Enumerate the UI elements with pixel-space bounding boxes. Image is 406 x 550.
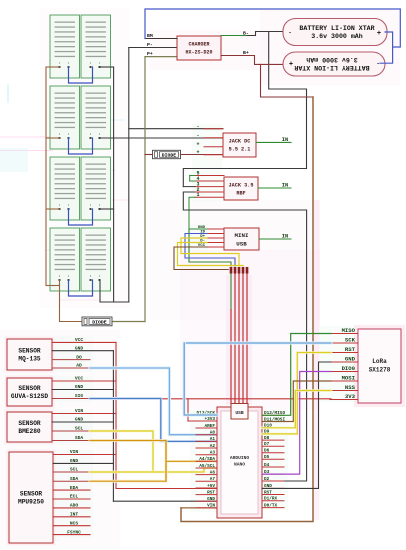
svg-text:BATTERY LI-ION XTAR: BATTERY LI-ION XTAR: [299, 25, 374, 32]
svg-text:RST: RST: [345, 346, 356, 353]
svg-text:MISO: MISO: [342, 327, 356, 334]
svg-text:D6: D6: [264, 449, 270, 454]
svg-text:SENSOR: SENSOR: [20, 491, 43, 498]
svg-text:MPU9250: MPU9250: [18, 499, 44, 506]
svg-text:-: -: [196, 123, 199, 129]
svg-text:AD: AD: [76, 363, 82, 369]
svg-text:GND: GND: [345, 355, 356, 362]
svg-text:3.6v 3000 mAh: 3.6v 3000 mAh: [306, 56, 357, 63]
svg-text:GND: GND: [75, 384, 84, 390]
svg-text:SENSOR: SENSOR: [18, 348, 41, 355]
svg-text:CHARGER: CHARGER: [188, 42, 209, 48]
svg-text:A5/SCL: A5/SCL: [199, 464, 215, 469]
svg-text:A1: A1: [210, 437, 216, 442]
svg-text:VIN: VIN: [207, 504, 215, 509]
svg-text:GUVA-S12SD: GUVA-S12SD: [11, 393, 48, 400]
svg-text:SX1278: SX1278: [369, 367, 391, 374]
svg-text:D2: D2: [264, 477, 270, 482]
svg-text:NSS: NSS: [345, 384, 356, 391]
svg-text:D0/TX: D0/TX: [264, 503, 278, 508]
svg-text:IN: IN: [282, 183, 288, 189]
svg-text:MINI: MINI: [235, 232, 249, 239]
svg-text:RST: RST: [207, 490, 215, 495]
svg-text:VIN: VIN: [75, 408, 84, 414]
svg-text:ADO: ADO: [70, 503, 79, 509]
svg-text:5.5 2.1: 5.5 2.1: [229, 147, 251, 153]
svg-text:D1/RX: D1/RX: [264, 497, 278, 502]
svg-text:IN: IN: [282, 234, 288, 240]
svg-text:FSYNC: FSYNC: [67, 529, 81, 535]
svg-text:D7: D7: [264, 442, 270, 447]
svg-text:DIO0: DIO0: [342, 365, 356, 372]
svg-text:+: +: [196, 141, 199, 147]
svg-text:SDA: SDA: [70, 476, 79, 482]
svg-text:IN: IN: [282, 137, 288, 143]
svg-text:SENSOR: SENSOR: [18, 420, 41, 427]
svg-text:VCC: VCC: [75, 337, 84, 343]
svg-text:1: 1: [196, 192, 199, 198]
svg-text:VIN: VIN: [70, 449, 79, 455]
svg-text:SCK: SCK: [345, 336, 356, 343]
svg-text:NCS: NCS: [70, 520, 79, 526]
svg-text:GND: GND: [207, 497, 215, 502]
svg-text:A7: A7: [210, 477, 216, 482]
svg-text:GND: GND: [75, 345, 84, 351]
svg-text:A2: A2: [210, 444, 216, 449]
svg-text:P-: P-: [147, 42, 153, 48]
svg-text:SENSOR: SENSOR: [18, 385, 41, 392]
svg-text:AREF: AREF: [204, 424, 215, 429]
svg-text:SCL: SCL: [70, 467, 79, 473]
svg-text:D4: D4: [264, 463, 270, 468]
svg-text:JACK 3.5: JACK 3.5: [229, 183, 254, 189]
svg-text:+: +: [377, 30, 381, 38]
svg-text:3.6v 3000 mAh: 3.6v 3000 mAh: [311, 33, 362, 40]
svg-text:EDA: EDA: [70, 485, 79, 491]
svg-text:LoRa: LoRa: [372, 358, 387, 365]
svg-text:VCC: VCC: [75, 376, 84, 382]
svg-text:HX-2S-D20: HX-2S-D20: [185, 50, 212, 56]
svg-text:+3V3: +3V3: [204, 417, 215, 422]
svg-text:DO: DO: [76, 354, 82, 360]
svg-text:A3: A3: [210, 451, 216, 456]
svg-text:MQ-135: MQ-135: [18, 356, 41, 363]
svg-text:D5: D5: [264, 455, 270, 460]
svg-text:A4/SDA: A4/SDA: [199, 457, 215, 462]
svg-text:+5V: +5V: [207, 484, 215, 489]
svg-text:-: -: [376, 60, 380, 67]
svg-text:GND: GND: [70, 458, 79, 464]
svg-text:BATTERY LI-ION XTAR: BATTERY LI-ION XTAR: [294, 64, 369, 71]
svg-text:-: -: [288, 30, 292, 37]
svg-text:RBF: RBF: [236, 191, 245, 197]
svg-text:MOSI: MOSI: [342, 374, 355, 381]
svg-text:INT: INT: [70, 512, 79, 518]
svg-text:SDA: SDA: [75, 435, 84, 441]
svg-text:A6: A6: [210, 470, 216, 475]
svg-text:NANO: NANO: [234, 462, 245, 468]
svg-text:GND: GND: [75, 417, 84, 423]
svg-text:USB: USB: [236, 241, 247, 248]
svg-text:ARDUINO: ARDUINO: [230, 455, 250, 461]
svg-text:RST: RST: [264, 490, 272, 495]
svg-text:SCL: SCL: [75, 426, 84, 432]
svg-text:BME280: BME280: [18, 428, 41, 435]
svg-text:-: -: [196, 132, 199, 138]
svg-text:3V3: 3V3: [345, 393, 356, 400]
svg-text:JACK DC: JACK DC: [229, 139, 251, 145]
svg-text:DIODE: DIODE: [162, 152, 177, 158]
svg-text:USB: USB: [235, 410, 244, 416]
svg-text:+: +: [289, 58, 293, 66]
svg-text:SIG: SIG: [75, 393, 84, 399]
svg-text:ECL: ECL: [70, 494, 79, 500]
svg-text:P+: P+: [147, 51, 153, 57]
svg-text:DIODE: DIODE: [92, 320, 107, 326]
svg-text:A0: A0: [210, 431, 216, 436]
svg-text:+: +: [196, 149, 199, 155]
svg-text:D8: D8: [264, 436, 270, 441]
